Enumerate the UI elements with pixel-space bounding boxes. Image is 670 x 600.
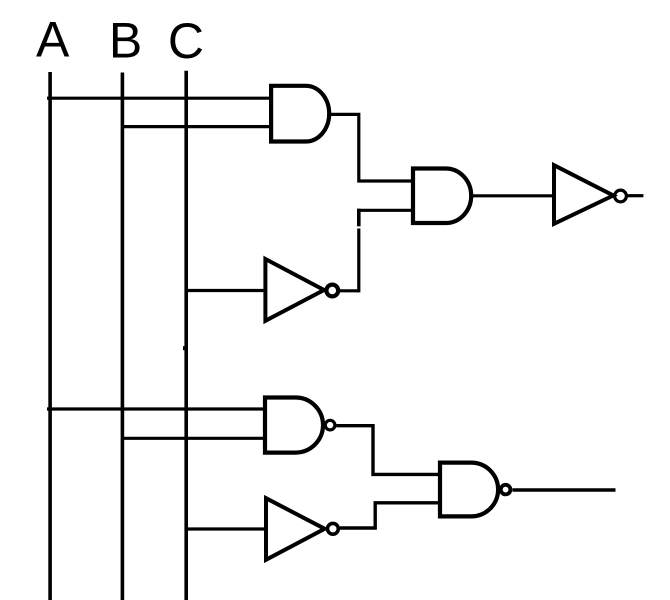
wire U6 output to NAND U7 bottom input xyxy=(340,503,440,528)
inverter U6 triangle xyxy=(266,498,325,560)
NAND U7 bubble xyxy=(501,485,511,495)
input bus line C (vertical) xyxy=(184,71,188,600)
NAND gate U5 body xyxy=(265,398,323,453)
wire U7 output (bottom result) xyxy=(513,488,616,491)
svg-text:C: C xyxy=(168,13,204,69)
wire A to NAND U5 top input xyxy=(47,407,266,410)
stray mark left of line C xyxy=(183,346,185,350)
svg-text:A: A xyxy=(36,12,70,68)
inverter U2 triangle xyxy=(265,259,324,321)
wire A to AND U1 top input xyxy=(47,97,272,100)
wire B to NAND U5 bottom input xyxy=(121,437,266,440)
input bus line B (vertical) xyxy=(121,73,125,600)
wire B to AND U1 bottom input xyxy=(121,125,272,128)
inverter U6 bubble xyxy=(328,523,339,534)
svg-text:B: B xyxy=(109,13,142,69)
AND gate U3 xyxy=(413,169,471,224)
NAND gate U7 body xyxy=(440,463,498,517)
NAND U5 bubble xyxy=(325,420,335,430)
wire C to inverter U6 input xyxy=(185,527,267,530)
wire U3 output to inverter U4 input xyxy=(471,194,554,197)
wire U2 output to AND U3 bottom input xyxy=(339,209,413,293)
wire U4 output (top result) xyxy=(628,194,644,197)
inverter U2 bubble xyxy=(326,285,338,297)
input bus line A (vertical) xyxy=(48,72,52,600)
wire U5 output to NAND U7 top input xyxy=(336,426,440,475)
inverter U4 triangle xyxy=(554,165,613,224)
AND gate U1 xyxy=(271,86,329,142)
wire U1 output to AND U3 top input xyxy=(329,114,413,181)
inverter U4 bubble xyxy=(615,190,627,202)
wire C to inverter U2 input xyxy=(185,289,266,292)
